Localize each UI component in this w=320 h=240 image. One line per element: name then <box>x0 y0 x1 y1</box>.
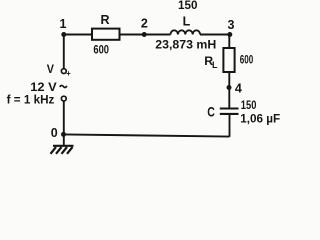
svg-text:+: + <box>66 69 71 78</box>
svg-text:1: 1 <box>60 17 67 31</box>
capacitor C bottom plate <box>220 113 239 115</box>
node 0 <box>61 132 66 137</box>
svg-text:R: R <box>100 13 109 27</box>
wire top: node1 to R <box>64 34 92 36</box>
svg-text:1,06 µF: 1,06 µF <box>240 112 280 126</box>
svg-text:C: C <box>207 104 215 119</box>
node 2 <box>142 32 147 37</box>
source V top terminal (+) <box>61 69 66 74</box>
svg-text:150: 150 <box>241 98 257 112</box>
node 1 <box>61 32 66 37</box>
svg-text:L: L <box>212 60 218 70</box>
wire top: R to inductor <box>120 34 171 36</box>
ground hatch 4 <box>67 147 73 154</box>
resistor R <box>92 29 120 40</box>
svg-text:4: 4 <box>235 82 242 96</box>
wire left: node1 down to source + terminal <box>63 35 65 70</box>
ground hatch 1 <box>51 147 57 154</box>
node 3 <box>227 32 232 37</box>
wire right: capacitor down to bottom wire <box>229 114 231 137</box>
wire left: source - terminal down to node0 <box>63 101 65 135</box>
ground hatch 2 <box>56 147 62 154</box>
svg-text:23,873 mH: 23,873 mH <box>155 38 216 52</box>
node 4 <box>227 85 232 90</box>
ground hatch 3 <box>62 147 68 154</box>
svg-text:600: 600 <box>240 53 254 67</box>
ground bar <box>53 145 74 147</box>
svg-text:V: V <box>47 62 54 76</box>
source V bottom terminal <box>61 96 66 101</box>
capacitor C top plate <box>220 107 239 109</box>
svg-text:0: 0 <box>51 126 58 140</box>
svg-text:150: 150 <box>178 0 198 12</box>
wire right: RL to node4 <box>228 72 230 88</box>
resistor RL <box>223 48 234 72</box>
wire: node0 down to ground <box>63 134 65 145</box>
svg-text:2: 2 <box>141 17 148 31</box>
wire right: node3 down to RL <box>228 35 230 49</box>
svg-text:600: 600 <box>93 43 109 57</box>
wire top: inductor to node3 <box>200 34 230 36</box>
svg-text:f = 1 kHz: f = 1 kHz <box>7 92 55 106</box>
label ~ (ac) <box>60 85 67 87</box>
inductor L coil <box>171 30 201 34</box>
wire right: node4 down to capacitor <box>228 88 230 109</box>
wire bottom: node0 to capacitor branch <box>64 134 230 136</box>
svg-text:L: L <box>183 15 191 29</box>
svg-text:3: 3 <box>228 18 235 32</box>
